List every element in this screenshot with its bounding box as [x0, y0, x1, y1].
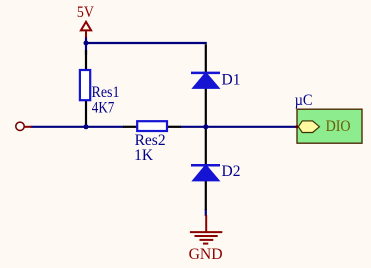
- svg-text:4K7: 4K7: [92, 99, 115, 116]
- pin: resistor R2 left pin (black): [123, 126, 137, 128]
- resistor R1 body (Res1): [80, 70, 90, 100]
- wire: main horizontal from terminal to Res2 left pin: [31, 126, 125, 128]
- junction dot at diode node on main wire: [203, 124, 208, 129]
- diode D2: triangle (anode, pointing up): [192, 165, 219, 181]
- power symbol 5V: stem: [85, 31, 87, 37]
- ground symbol: stem: [205, 215, 207, 232]
- diode D1: cathode bar: [191, 72, 220, 75]
- diode D1: triangle (anode, pointing up): [192, 72, 219, 88]
- wire: horizontal from diode node junction to DIO port box: [206, 126, 297, 128]
- terminal: red stub wire: [25, 126, 32, 128]
- junction dot at left node on main wire: [84, 124, 89, 129]
- svg-text:D1: D1: [222, 72, 241, 89]
- pin: diode D2 bottom pin (black): [205, 181, 207, 210]
- svg-text:µC: µC: [295, 92, 313, 109]
- pin: diode D1 top pin (black): [205, 44, 207, 72]
- power symbol 5V: open triangle: [81, 22, 91, 31]
- pin: resistor R1 bottom pin (black): [85, 101, 87, 127]
- svg-text:GND: GND: [189, 246, 223, 263]
- junction dot at 5V node: [84, 41, 89, 46]
- sheet symbol: microcontroller green box: [297, 109, 362, 143]
- ground symbol: bar 3: [200, 239, 214, 241]
- node: port connection point on box edge: [295, 125, 298, 128]
- svg-text:1K: 1K: [134, 147, 154, 164]
- resistor R2 body (Res2): [137, 121, 167, 131]
- pin: resistor R1 top pin (black): [85, 50, 87, 70]
- wire: horizontal from Res2 right pin to diode node junction: [180, 126, 206, 128]
- wire: short vertical above ground symbol: [205, 209, 207, 216]
- wire: top horizontal from 5V junction to D1 corner: [86, 42, 207, 44]
- svg-text:5V: 5V: [77, 4, 95, 21]
- terminal: open circle node (input): [16, 122, 24, 130]
- ground symbol: bar 2: [195, 235, 218, 237]
- wire: vertical stub below 5V symbol down to junction and Res1 pin: [85, 37, 87, 56]
- ground symbol: bar 4: [203, 243, 208, 245]
- port DIO: yellow hexagon pin marker: [298, 121, 319, 133]
- svg-text:DIO: DIO: [326, 118, 351, 135]
- pin: resistor R2 right pin (black): [167, 126, 181, 128]
- svg-text:D2: D2: [222, 163, 241, 180]
- ground symbol: bar 1: [190, 231, 222, 233]
- pin: diode D1 bottom / D2 top pin (black): [205, 88, 207, 165]
- diode D2: cathode bar: [191, 164, 220, 167]
